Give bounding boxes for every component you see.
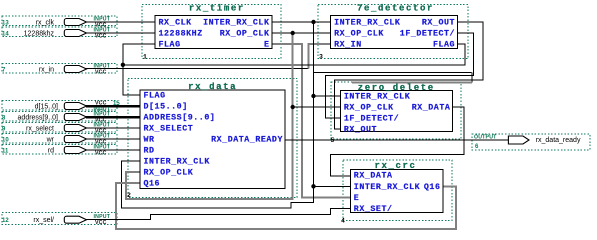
svg-text:3: 3 [319, 54, 323, 61]
wire stub RX_OP_CLK to zero_delete.RX_OP_CLK [293, 106, 341, 108]
svg-text:VCC: VCC [95, 101, 107, 107]
svg-text:INTER_RX_CLK: INTER_RX_CLK [334, 19, 400, 28]
svg-text:rx_clk: rx_clk [36, 20, 55, 27]
svg-text:13: 13 [2, 21, 9, 27]
input pin 12 rx_sel/ [2, 214, 111, 226]
svg-text:rx_select: rx_select [26, 126, 54, 133]
block zero_delete U5 [331, 83, 453, 144]
svg-text:INTER_RX_CLK: INTER_RX_CLK [354, 183, 420, 192]
svg-text:RX_DATA: RX_DATA [412, 103, 451, 112]
junction dot INTER_RX_CLK at rx_crc [311, 184, 315, 188]
wire segment gray detour x=472 [471, 72, 473, 82]
input pin 9 rx_select [2, 123, 111, 135]
svg-text:VCC: VCC [95, 69, 107, 75]
input pin 14 12288khz [2, 28, 111, 40]
junction dot INTER_RX_CLK top [311, 20, 315, 24]
svg-text:RX_IN: RX_IN [334, 41, 362, 50]
svg-text:rx_data: rx_data [188, 82, 237, 92]
selection box rx_crc [343, 160, 452, 220]
block rx_timer U1 [143, 4, 272, 61]
svg-text:address[9..0]: address[9..0] [18, 115, 59, 122]
junction dot RX_OP_CLK top [291, 31, 295, 35]
svg-text:rx_timer: rx_timer [189, 4, 245, 14]
input pin 15 d[15..0] [35, 101, 121, 114]
wire stub INTER_RX_CLK to rx_crc.INTER_RX_CLK [314, 185, 351, 187]
svg-text:RX_OP_CLK: RX_OP_CLK [344, 103, 394, 112]
svg-text:WR: WR [144, 136, 155, 145]
wire net rx_in riser to 7e_detector.RX_IN (gray) [309, 44, 331, 68]
wire rx_data.RX_DATA_READY to output pin [285, 139, 508, 141]
wire net FLAG drop to rx_data.FLAG [123, 65, 140, 95]
svg-text:INTER_RX_CLK: INTER_RX_CLK [144, 158, 210, 167]
block rx_data U2 [127, 82, 285, 199]
input pin 8 address[9..0] [2, 112, 111, 124]
wire net Q16 rx_crc to rx_data (gray) [116, 183, 456, 229]
svg-text:RX_CLK: RX_CLK [159, 19, 192, 28]
svg-text:4: 4 [341, 218, 345, 225]
svg-text:E: E [264, 41, 270, 50]
svg-text:7e_detector: 7e_detector [357, 4, 434, 14]
svg-text:15: 15 [113, 101, 120, 107]
wire net INTER_RX_CLK vertical distribution [121, 22, 313, 208]
wire rx_select to rx_data [86, 127, 140, 129]
selection box pin 12288khz [2, 27, 117, 36]
svg-text:RX_DATA_READY: RX_DATA_READY [211, 136, 283, 145]
svg-text:Q16: Q16 [424, 183, 441, 192]
selection box pin wr [2, 134, 117, 143]
block rx_crc U4 [341, 161, 443, 224]
wire net RX_OP_CLK vertical distribution (gray) [126, 33, 293, 199]
selection box rx_data [128, 78, 297, 197]
selection box pin rx_in [2, 63, 117, 72]
svg-text:12: 12 [2, 218, 9, 224]
input pin 13 rx_clk [2, 17, 111, 29]
svg-text:INTER_RX_CLK: INTER_RX_CLK [203, 19, 269, 28]
svg-text:d[15..0]: d[15..0] [35, 104, 58, 111]
wire net RX_OUT 7e_detector to zero_delete [334, 22, 483, 129]
input pin 7 rx_in [2, 64, 111, 76]
wire rd to rx_data [86, 149, 140, 151]
svg-text:E: E [354, 194, 360, 203]
svg-text:VCC: VCC [95, 150, 107, 156]
svg-text:RX_OP_CLK: RX_OP_CLK [334, 30, 384, 39]
input pin 10 wr [2, 134, 111, 146]
svg-text:rx_data_ready: rx_data_ready [536, 137, 581, 144]
svg-text:12288khz: 12288khz [24, 31, 55, 38]
wire segment detour at y=72.3 [314, 71, 473, 73]
svg-text:RX_OP_CLK: RX_OP_CLK [220, 30, 270, 39]
wire net rx_in horizontal run [85, 67, 309, 69]
svg-text:FLAG: FLAG [159, 41, 181, 50]
output pin 6 rx_data_ready [474, 134, 581, 150]
block 7e_detector U3 [319, 4, 458, 61]
svg-text:10: 10 [2, 138, 9, 144]
wire rx_clk to rx_timer.RX_CLK [86, 21, 155, 23]
svg-text:rx_crc: rx_crc [374, 161, 416, 171]
svg-text:INTER_RX_CLK: INTER_RX_CLK [344, 92, 410, 101]
svg-text:rd: rd [48, 148, 54, 155]
wire net FLAG riser to rx_timer.FLAG [123, 44, 155, 65]
wire stub INTER_RX_CLK to zero_delete.INTER_RX_CLK [314, 95, 341, 97]
svg-text:RX_SET/: RX_SET/ [354, 204, 393, 214]
bus wire address[9..0] to rx_data [86, 116, 140, 119]
selection box pin rx_sel/ [2, 213, 117, 225]
selection box pin rd [2, 145, 117, 154]
svg-text:12288KHZ: 12288KHZ [159, 30, 203, 39]
svg-text:RX_OUT: RX_OUT [422, 19, 455, 28]
svg-text:2: 2 [127, 192, 131, 199]
svg-text:Q16: Q16 [144, 180, 161, 189]
wire net RX_OP_CLK rx_timer to 7e_detector [272, 32, 331, 34]
selection box pin rx_clk [2, 16, 117, 25]
bus wire d[15..0] to rx_data [86, 105, 140, 108]
wire net E rx_timer.E to rx_crc.E (gray) [272, 44, 350, 197]
svg-text:VCC: VCC [95, 33, 107, 39]
svg-text:14: 14 [2, 32, 9, 38]
wire net RX_DATA zero_delete to rx_crc [331, 107, 465, 176]
selection box pin rx_data_ready [472, 134, 590, 150]
wire wr to rx_data [86, 138, 140, 140]
selection box pin address[9..0] [2, 112, 117, 121]
svg-text:RX_OP_CLK: RX_OP_CLK [144, 169, 194, 178]
svg-text:1: 1 [143, 54, 147, 61]
junction dot RX_OP_CLK at zero_delete [291, 105, 295, 109]
svg-text:D[15..0]: D[15..0] [144, 102, 188, 112]
svg-text:1F_DETECT/: 1F_DETECT/ [344, 113, 399, 123]
wire net INTER_RX_CLK rx_timer to 7e_detector [272, 21, 331, 23]
wire 12288khz to rx_timer.12288KHZ [86, 32, 155, 34]
wire rx_sel/ to rx_crc.RX_SET/ [86, 209, 350, 220]
svg-text:FLAG: FLAG [144, 92, 166, 101]
selection box rx_timer [142, 5, 281, 59]
svg-text:OUTPUT: OUTPUT [474, 134, 497, 140]
svg-text:RX_OUT: RX_OUT [344, 125, 377, 134]
svg-text:1F_DETECT/: 1F_DETECT/ [400, 29, 455, 39]
input pin 11 rd [2, 145, 111, 157]
wire net 1F_DETECT/ 7e_detector to zero_delete [325, 33, 473, 118]
svg-text:wr: wr [46, 137, 55, 144]
selection box pin rx_select [2, 123, 117, 132]
svg-text:5: 5 [331, 137, 335, 144]
junction dot INTER_RX_CLK at zero_delete [311, 94, 315, 98]
svg-text:rx_sel/: rx_sel/ [33, 217, 54, 224]
svg-text:VCC: VCC [95, 220, 107, 226]
selection box zero_delete [331, 82, 461, 139]
selection box 7e_detector [318, 5, 468, 59]
svg-text:rx_in: rx_in [39, 67, 54, 74]
svg-text:FLAG: FLAG [433, 41, 455, 50]
svg-text:RD: RD [144, 147, 155, 156]
svg-text:ADDRESS[9..0]: ADDRESS[9..0] [144, 113, 216, 123]
svg-text:RX_DATA: RX_DATA [354, 172, 393, 181]
wire segment gray run y=82.5 [352, 82, 472, 84]
svg-text:RX_SELECT: RX_SELECT [144, 125, 194, 134]
svg-text:11: 11 [2, 149, 9, 155]
junction dot FLAG net [121, 63, 125, 67]
selection box pin d[15..0] [2, 101, 117, 110]
wire net FLAG 7e_detector.FLAG wrap [123, 44, 465, 65]
